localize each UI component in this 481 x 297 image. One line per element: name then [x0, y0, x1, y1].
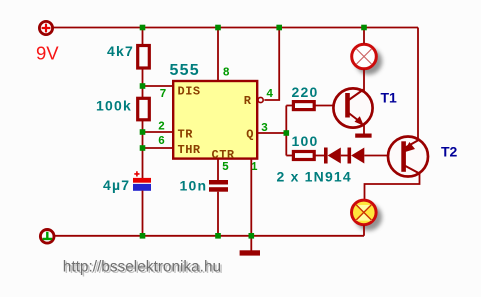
resistor 4k7 — [138, 46, 150, 69]
svg-text:555: 555 — [170, 62, 200, 79]
svg-text:DIS: DIS — [178, 85, 201, 99]
resistor 220 — [293, 102, 314, 110]
wire left vertical from rail to 4k7 — [142, 28, 144, 47]
junction 4k7 rail — [140, 25, 146, 31]
svg-text:220: 220 — [292, 84, 319, 100]
svg-text:T1: T1 — [381, 90, 398, 106]
transistor T2 — [388, 137, 428, 177]
junction LA1 rail — [361, 25, 367, 31]
wire C1 to bottom rail — [142, 191, 144, 236]
svg-text:7: 7 — [160, 88, 167, 101]
junction C1 rail — [140, 233, 146, 239]
capacitor C1 4u7 negative plate — [133, 184, 151, 191]
diode D2 — [348, 148, 365, 164]
svg-text:100k: 100k — [96, 98, 132, 114]
svg-text:6: 6 — [158, 135, 165, 148]
junction TR node — [140, 129, 146, 135]
wire Q pin 3 — [258, 132, 286, 134]
lamp LA1 shadow — [355, 48, 382, 75]
svg-text:THR: THR — [178, 143, 201, 157]
wire THR pin 6 — [143, 147, 174, 149]
wire D2 to T2 base — [364, 155, 402, 157]
wire LA2 to bottom rail — [363, 225, 365, 235]
wire right vertical to T2 emitter — [417, 28, 419, 141]
wire GND pin 1 — [250, 159, 252, 251]
wire T1 emitter — [363, 124, 365, 134]
junction C2 rail — [215, 233, 221, 239]
junction DIS node — [140, 83, 146, 89]
svg-text:4k7: 4k7 — [107, 43, 134, 59]
wire CTR pin 5 to C2 — [217, 159, 219, 180]
capacitor C1 4u7 positive plate — [133, 178, 151, 183]
wire C2 to bottom rail — [217, 192, 219, 236]
wire top +9V rail — [53, 27, 418, 29]
wire 100 to D1 — [315, 155, 325, 157]
wire 220 to T1 base — [315, 105, 346, 107]
capacitor C2 10n — [209, 180, 228, 192]
junction pin1 rail — [249, 233, 255, 239]
svg-text:9V: 9V — [36, 42, 59, 63]
wire branch to 100 — [286, 155, 294, 157]
wire LA1 to T1 collector — [363, 70, 365, 93]
battery positive terminal — [39, 21, 52, 34]
svg-text:T2: T2 — [441, 144, 458, 160]
wire Q branch vertical — [285, 106, 287, 156]
ground bar T1 emitter — [355, 134, 371, 138]
svg-text:5: 5 — [222, 161, 229, 174]
diode D1 — [324, 148, 341, 164]
wire T2 collector to LA2 — [365, 174, 420, 200]
ground symbol — [240, 250, 260, 255]
wire reset pin 4 — [264, 28, 279, 101]
svg-text:100: 100 — [292, 133, 319, 149]
svg-text:TR: TR — [178, 128, 194, 142]
svg-text:Q: Q — [246, 127, 253, 141]
svg-text:2: 2 — [158, 121, 165, 134]
reset bubble pin 4 — [258, 97, 263, 102]
wire DIS pin 7 — [143, 85, 174, 87]
wire 4k7 to junction — [142, 68, 144, 98]
transistor T1 — [333, 88, 372, 127]
junction Q branch — [284, 130, 290, 136]
svg-text:CTR: CTR — [212, 148, 235, 162]
wire D1 to D2 — [341, 155, 348, 157]
wire bottom 0V rail — [54, 235, 364, 237]
resistor 100k — [138, 98, 150, 120]
wire VCC pin 8 — [217, 28, 219, 82]
wire rail to LA1 — [363, 28, 365, 44]
junction pin 4 rail — [276, 25, 282, 31]
lamp LA2 — [352, 200, 377, 225]
svg-text:http://bsselektronika.hu: http://bsselektronika.hu — [63, 258, 221, 275]
svg-text:2 x 1N914: 2 x 1N914 — [277, 169, 352, 185]
resistor 100 — [293, 152, 314, 160]
wire 100k to TR/THR node — [142, 120, 144, 178]
capacitor C1 4u7 plus mark — [134, 171, 139, 176]
svg-text:4µ7: 4µ7 — [103, 177, 130, 193]
svg-text:8: 8 — [223, 67, 230, 80]
junction pin 8 rail — [215, 25, 221, 31]
wire branch to 220 — [286, 105, 294, 107]
battery negative terminal — [40, 230, 54, 244]
wire TR pin 2 — [143, 131, 174, 133]
url watermark — [63, 258, 223, 277]
svg-text:R: R — [244, 94, 252, 108]
svg-text:4: 4 — [266, 88, 273, 101]
junction THR node — [140, 145, 146, 151]
svg-text:10n: 10n — [180, 178, 208, 194]
IC U1 555 body — [173, 81, 257, 159]
lamp LA1 — [352, 44, 377, 69]
lamp LA2 shadow — [355, 204, 382, 231]
